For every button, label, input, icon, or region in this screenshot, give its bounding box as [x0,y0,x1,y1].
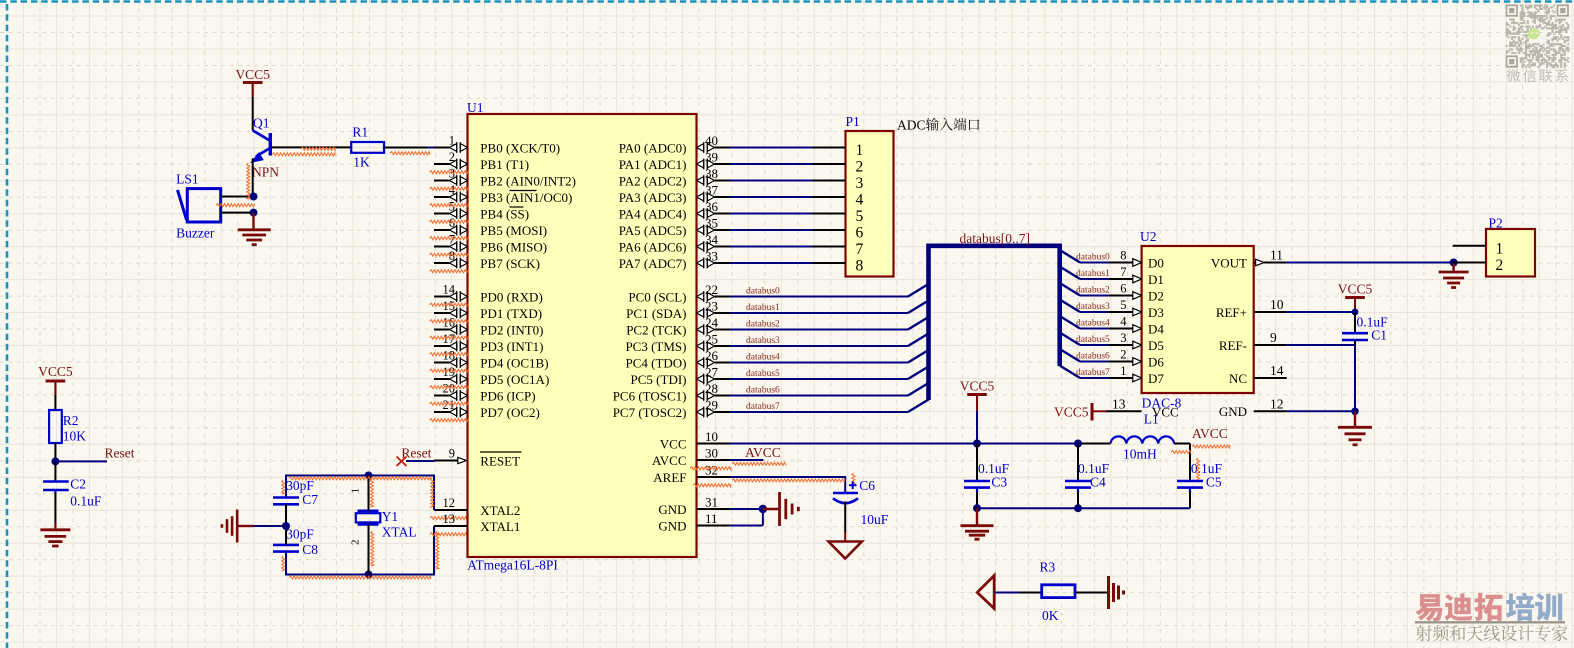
svg-text:PB1 (T1): PB1 (T1) [480,157,529,172]
svg-text:14: 14 [443,283,456,297]
wire L1 to AVCC node [1174,443,1190,445]
svg-text:9: 9 [1270,330,1277,345]
U2 pin D2 [1109,295,1133,297]
U1 pin 8 PB7 (SCK) [434,262,450,264]
wire PA2 to P1 [730,180,813,182]
svg-text:AREF: AREF [653,470,686,485]
U1 pin 10 VCC [697,443,730,445]
U2 pin 10 REF+ [1254,311,1287,313]
svg-text:C1: C1 [1371,328,1387,343]
svg-text:VCC5: VCC5 [1054,405,1089,420]
svg-text:PD6 (ICP): PD6 (ICP) [480,388,535,403]
junction C3 bottom [973,504,981,512]
buzzer LS1 [178,189,221,222]
U1 pin 1 PB0 (XCK/T0) [434,147,450,149]
op-amp U2 body [1142,246,1254,393]
svg-text:PB2 (AIN0/INT2): PB2 (AIN0/INT2) [480,173,576,188]
wire PA4 to P1 [730,213,813,215]
ground (C1) [1354,411,1356,427]
U1 pin 22 PC0 (SCL) [697,293,704,301]
wire R3 left [994,592,1020,594]
P2 pin 1 [1453,245,1486,247]
svg-text:P2: P2 [1489,216,1503,231]
svg-text:R3: R3 [1040,560,1056,575]
svg-text:databus1: databus1 [1076,269,1110,279]
svg-text:databus3: databus3 [746,336,780,346]
U1 pin 2 PB1 (T1) [434,163,450,165]
U1 pin 12 XTAL2 [434,509,468,511]
earth ground (C6) [829,542,862,559]
svg-text:2: 2 [1120,348,1126,362]
svg-text:C7: C7 [302,492,318,507]
svg-text:PD7 (OC2): PD7 (OC2) [480,405,540,420]
resistor R1 [351,142,384,153]
svg-text:databus4: databus4 [1076,319,1110,329]
wire databus4 to U2 D4 [1060,316,1080,329]
svg-text:3: 3 [1120,331,1126,345]
svg-text:30pF: 30pF [286,526,314,541]
wire PA7 to P1 [730,262,813,264]
wire PC1 databus1 [730,312,909,314]
svg-text:0K: 0K [1042,608,1059,623]
svg-text:VCC5: VCC5 [38,364,73,379]
P1 pin 1 [813,147,846,149]
wire Reset stub [55,460,107,462]
svg-text:1: 1 [1120,364,1126,378]
svg-text:35: 35 [705,215,718,230]
U1 pin 17 PD3 (INT1) [434,345,450,347]
wire databus3 to U2 D3 [1060,300,1080,313]
wire VCC rail [730,443,1079,445]
wire PA6 to P1 [730,246,813,248]
U2 pin D3 [1109,311,1133,313]
svg-text:PD0 (RXD): PD0 (RXD) [480,289,542,304]
svg-text:37: 37 [705,182,719,197]
svg-text:ATmega16L-8PI: ATmega16L-8PI [467,558,558,573]
svg-text:D5: D5 [1148,338,1164,353]
svg-text:databus1: databus1 [746,303,780,313]
svg-text:PB0 (XCK/T0): PB0 (XCK/T0) [480,140,560,155]
junction VCC5-C3 [973,440,981,448]
power VCC5 (Q1 collector) [243,81,263,84]
svg-text:XTAL2: XTAL2 [480,503,520,518]
svg-text:Q1: Q1 [253,116,270,131]
svg-text:Buzzer: Buzzer [176,226,215,241]
U1 pin 29 PC7 (TOSC2) [697,408,704,416]
erc marker AVCC pin30 [732,462,786,465]
svg-text:7: 7 [1120,265,1126,279]
svg-text:28: 28 [705,381,718,396]
svg-text:RESET: RESET [480,453,520,468]
svg-text:databus0: databus0 [1076,253,1110,263]
svg-text:databus5: databus5 [1076,335,1110,345]
wire GND31 [730,508,763,510]
svg-text:PC1 (SDA): PC1 (SDA) [626,306,686,321]
erc marker R1 wire [390,152,430,155]
svg-text:D6: D6 [1148,354,1164,369]
wire GND12 to gnd [1287,410,1355,412]
U1 pin 24 PC2 (TCK) [697,326,704,334]
svg-text:U2: U2 [1140,229,1157,244]
svg-text:VCC5: VCC5 [235,67,270,82]
svg-text:8: 8 [1120,249,1126,263]
svg-text:10mH: 10mH [1123,447,1157,462]
svg-text:D7: D7 [1148,371,1164,386]
U1 pin 5 PB4 (SS) [434,213,450,215]
ground (buzzer) [252,213,254,230]
svg-text:databus[0..7]: databus[0..7] [960,231,1030,246]
svg-text:Reset: Reset [105,446,135,461]
U1 pin 21 PD7 (OC2) [434,411,450,413]
svg-text:PA0 (ADC0): PA0 (ADC0) [619,140,687,155]
svg-text:GND: GND [658,502,686,517]
bus databus[0..7] [929,246,1060,400]
svg-text:PA1 (ADC1): PA1 (ADC1) [619,157,687,172]
svg-text:14: 14 [1270,363,1284,378]
svg-text:databus2: databus2 [746,319,780,329]
U1 pin 33 PA7 (ADC7) [697,259,704,267]
svg-text:0.1uF: 0.1uF [70,494,102,509]
junction LS1 upper [250,193,258,201]
svg-text:13: 13 [443,512,456,526]
capacitor C6 (polarized) [852,481,854,489]
svg-text:databus7: databus7 [746,402,780,412]
P1 pin 3 [813,180,846,182]
QR code (wechat) [1506,4,1570,68]
svg-text:D1: D1 [1148,272,1164,287]
power VCC5 (C1) [1345,296,1365,299]
svg-text:databus3: databus3 [1076,302,1110,312]
svg-text:10: 10 [1270,297,1284,312]
wire PC6 databus6 [730,395,909,397]
svg-text:databus5: databus5 [746,369,780,379]
label weixin lianxi [1507,69,1521,82]
svg-text:D0: D0 [1148,255,1164,270]
wire databus2 to U2 D2 [1060,283,1080,296]
ground (crystal, rotated) [238,525,254,527]
erc marker Q1 emitter [247,163,250,199]
wire PC4 databus4 [730,362,909,364]
svg-text:R1: R1 [352,125,368,140]
capacitor C4 [1077,444,1079,482]
U1 pin 3 PB2 (AIN0/INT2) [434,180,450,182]
svg-text:PA5 (ADC5): PA5 (ADC5) [619,223,687,238]
U1 pin 35 PA5 (ADC5) [697,226,704,234]
svg-text:1: 1 [350,488,362,494]
svg-text:11: 11 [705,511,718,526]
power VCC5 (C3) [967,393,987,396]
svg-text:29: 29 [705,397,718,412]
P1 pin 2 [813,163,846,165]
wire PC0 databus0 [730,296,909,298]
U1 pin 19 PD5 (OC1A) [434,378,450,380]
svg-text:12: 12 [443,496,456,510]
junction GND31 [759,505,767,513]
U1 pin 20 PD6 (ICP) [434,395,450,397]
svg-text:PB4 (SS): PB4 (SS) [480,206,529,221]
capacitor C3 [976,444,978,482]
U1 pin 25 PC3 (TMS) [697,342,704,350]
erc markers U1 left pins [430,171,469,174]
svg-text:40: 40 [705,133,718,148]
svg-text:30: 30 [705,445,718,460]
svg-text:PA7 (ADC7): PA7 (ADC7) [619,256,687,271]
junction xtal bottom [365,571,373,579]
wire AREF to C6 [730,477,846,493]
svg-text:PB3 (AIN1/OC0): PB3 (AIN1/OC0) [480,190,572,205]
signal ground (R3) [1107,576,1110,609]
junction VOUT-gnd [1450,259,1458,267]
svg-text:27: 27 [705,364,719,379]
svg-text:PD5 (OC1A): PD5 (OC1A) [480,372,549,387]
overline AIN1 (PB3) [510,190,537,192]
svg-text:databus0: databus0 [746,286,780,296]
wire databus0 to U2 D0 [1060,250,1080,263]
svg-text:24: 24 [705,315,719,330]
svg-text:5: 5 [856,208,864,225]
capacitor C1 [1342,332,1368,335]
junction C4 top [1074,440,1082,448]
svg-text:10uF: 10uF [861,512,889,527]
U1 pin 13 XTAL1 [434,525,468,527]
wire PA0 to P1 [730,147,813,149]
svg-text:PC6 (TOSC1): PC6 (TOSC1) [613,388,687,403]
wire databus6 to U2 D6 [1060,349,1080,362]
wire databus7 to U2 D7 [1060,366,1080,379]
U2 pin D1 [1109,278,1133,280]
junction REF+ [1352,309,1359,316]
svg-text:databus7: databus7 [1076,368,1110,378]
wire C1 top lead [1354,312,1356,333]
svg-text:D3: D3 [1148,305,1164,320]
wire databus1 to U2 D1 [1060,267,1080,280]
junction C4 bottom [1074,504,1082,512]
svg-text:PC0 (SCL): PC0 (SCL) [628,289,686,304]
erc marker Q1 base wire [272,153,335,156]
svg-text:databus2: databus2 [1076,286,1110,296]
svg-text:1: 1 [856,142,864,159]
U1 pin 16 PD2 (INT0) [434,329,450,331]
wire VOUT to P2 [1287,262,1453,264]
wire PC2 databus2 [730,329,909,331]
svg-text:30pF: 30pF [286,478,314,493]
wire PA5 to P1 [730,229,813,231]
U2 pin 9 REF- [1254,344,1287,346]
svg-text:25: 25 [705,331,718,346]
svg-text:39: 39 [705,149,718,164]
U1 pin 7 PB6 (MISO) [434,246,450,248]
svg-text:2: 2 [856,158,864,175]
svg-text:5: 5 [1120,298,1126,312]
P1 pin 6 [813,229,846,231]
svg-text:databus6: databus6 [746,385,780,395]
wire LS1 upper [221,196,253,198]
wire xtal bottom [286,526,434,575]
svg-text:6: 6 [856,224,864,241]
capacitor C2 [54,461,56,481]
wire GND11 [730,525,763,527]
wire PA3 to P1 [730,196,813,198]
svg-text:31: 31 [705,494,718,509]
svg-text:AVCC: AVCC [1192,426,1228,441]
svg-text:L1: L1 [1144,412,1159,427]
erc marker AVCC node [1192,445,1230,448]
svg-text:databus4: databus4 [746,352,780,362]
P1 pin 8 [813,262,846,264]
power VCC5 (R2) [46,380,66,383]
svg-text:PA2 (ADC2): PA2 (ADC2) [619,173,687,188]
U1 pin 15 PD1 (TXD) [434,312,450,314]
overline RESET [480,451,522,453]
svg-text:PA3 (ADC3): PA3 (ADC3) [619,190,687,205]
svg-text:2: 2 [449,150,455,164]
svg-text:1: 1 [1496,240,1504,257]
svg-text:C8: C8 [302,542,318,557]
svg-text:4: 4 [1120,315,1127,329]
earth arrow (R3 left) [977,576,994,609]
svg-text:AVCC: AVCC [652,453,686,468]
U1 pin 11 GND [697,525,730,527]
erc marker LS1 wire [216,204,255,207]
U1 pin 4 PB3 (AIN1/OC0) [434,196,450,198]
svg-text:U1: U1 [467,100,484,115]
svg-text:NC: NC [1229,371,1247,386]
svg-text:LS1: LS1 [176,172,199,187]
U1 pin 28 PC6 (TOSC1) [697,392,704,400]
svg-text:9: 9 [449,447,455,461]
wire R1 to U1 pin1 [384,147,428,149]
U1 pin 23 PC1 (SDA) [697,309,704,317]
svg-text:2: 2 [1496,257,1504,274]
U1 pin 6 PB5 (MOSI) [434,229,450,231]
wire C6 to earth [844,502,846,534]
wire Q1 base to R1 [272,146,352,148]
svg-text:C6: C6 [859,478,875,493]
U2 pin D6 [1109,361,1133,363]
U1 pin 18 PD4 (OC1B) [434,362,450,364]
svg-text:26: 26 [705,348,719,363]
wire PC5 databus5 [730,378,909,380]
svg-text:Y1: Y1 [382,509,399,524]
svg-text:C5: C5 [1206,475,1222,490]
capacitor C7 [273,496,299,499]
svg-text:PD1 (TXD): PD1 (TXD) [480,306,542,321]
junction Reset [51,457,59,465]
junction xtal top [365,472,373,480]
signal ground (GND31) [763,508,780,510]
wire C2 to ground [54,493,56,523]
U1 pin 30 AVCC [697,459,730,461]
svg-text:23: 23 [705,298,718,313]
crystal Y1 [356,511,381,525]
wire Reset to pin9 [406,460,434,462]
svg-text:PD2 (INT0): PD2 (INT0) [480,322,543,337]
svg-text:C3: C3 [991,475,1007,490]
svg-text:R2: R2 [63,413,79,428]
svg-text:33: 33 [705,248,718,263]
watermark logo [1415,594,1442,621]
wire REF+ to C1 [1287,311,1355,313]
transistor Q1 [252,130,270,161]
ground (C2) [40,528,70,531]
svg-text:PC7 (TOSC2): PC7 (TOSC2) [613,405,687,420]
svg-text:1: 1 [449,134,455,148]
U2 pin D4 [1109,328,1133,330]
erc marker AREF [732,479,845,482]
svg-text:VCC5: VCC5 [1338,282,1373,297]
svg-text:10: 10 [705,429,718,444]
svg-text:PB6 (MISO): PB6 (MISO) [480,239,547,254]
svg-text:PA6 (ADC6): PA6 (ADC6) [619,239,687,254]
resistor R3 [1042,585,1075,598]
svg-text:P1: P1 [846,114,860,129]
svg-text:VCC5: VCC5 [960,379,995,394]
U1 pin 34 PA6 (ADC6) [697,243,704,251]
svg-text:1K: 1K [353,155,370,170]
U1 pin 26 PC4 (TDO) [697,359,704,367]
svg-text:REF+: REF+ [1216,305,1247,320]
svg-text:PD3 (INT1): PD3 (INT1) [480,339,543,354]
U1 pin 27 PC5 (TDI) [697,375,704,383]
erc markers crystal [289,477,431,480]
svg-text:PC4 (TDO): PC4 (TDO) [625,355,686,370]
svg-text:D2: D2 [1148,288,1164,303]
ground (P2) [1452,263,1454,273]
U2 pin 12 GND [1254,410,1287,412]
svg-text:PC3 (TMS): PC3 (TMS) [625,339,686,354]
P2 pin 2 [1453,262,1486,264]
U2 pin D0 [1109,262,1133,264]
U1 pin 36 PA4 (ADC4) [697,210,704,218]
connector P1 body [846,131,894,277]
svg-text:VOUT: VOUT [1211,255,1247,270]
no-erc cross [397,457,407,467]
junction C7-C8-gnd [282,522,290,530]
wire C7-C8 junction [285,504,287,544]
wire R3 right [1075,592,1109,594]
U2 pin 14 NC [1254,377,1287,379]
svg-text:GND: GND [1219,404,1247,419]
wire VCC5 to R2 [54,382,56,396]
svg-text:NPN: NPN [252,165,279,180]
U1 pin 14 PD0 (RXD) [434,296,450,298]
U1 pin 38 PA2 (ADC2) [697,177,704,185]
svg-text:databus6: databus6 [1076,352,1110,362]
svg-text:AVCC: AVCC [745,445,781,460]
svg-text:REF-: REF- [1219,338,1247,353]
wire databus5 to U2 D5 [1060,333,1080,346]
inductor L1 [1111,436,1175,443]
svg-text:C4: C4 [1090,475,1106,490]
svg-text:8: 8 [856,257,864,274]
wire crystal bottom lead [368,525,370,575]
wire REF- to C1 [1287,344,1355,346]
connector P2 body [1486,229,1535,277]
svg-text:PC5 (TDI): PC5 (TDI) [631,372,687,387]
wire VCC5 down to rail [976,396,978,412]
svg-text:C2: C2 [70,477,86,492]
capacitor C8 [273,544,299,547]
svg-text:7: 7 [856,241,864,258]
U1 pin 39 PA1 (ADC1) [697,160,704,168]
svg-text:6: 6 [1120,282,1126,296]
wire PC7 databus7 [730,411,909,413]
svg-text:D4: D4 [1148,321,1164,336]
svg-text:10K: 10K [63,429,87,444]
svg-text:PA4 (ADC4): PA4 (ADC4) [619,206,687,221]
svg-text:13: 13 [1112,396,1126,411]
svg-text:11: 11 [1270,248,1283,263]
